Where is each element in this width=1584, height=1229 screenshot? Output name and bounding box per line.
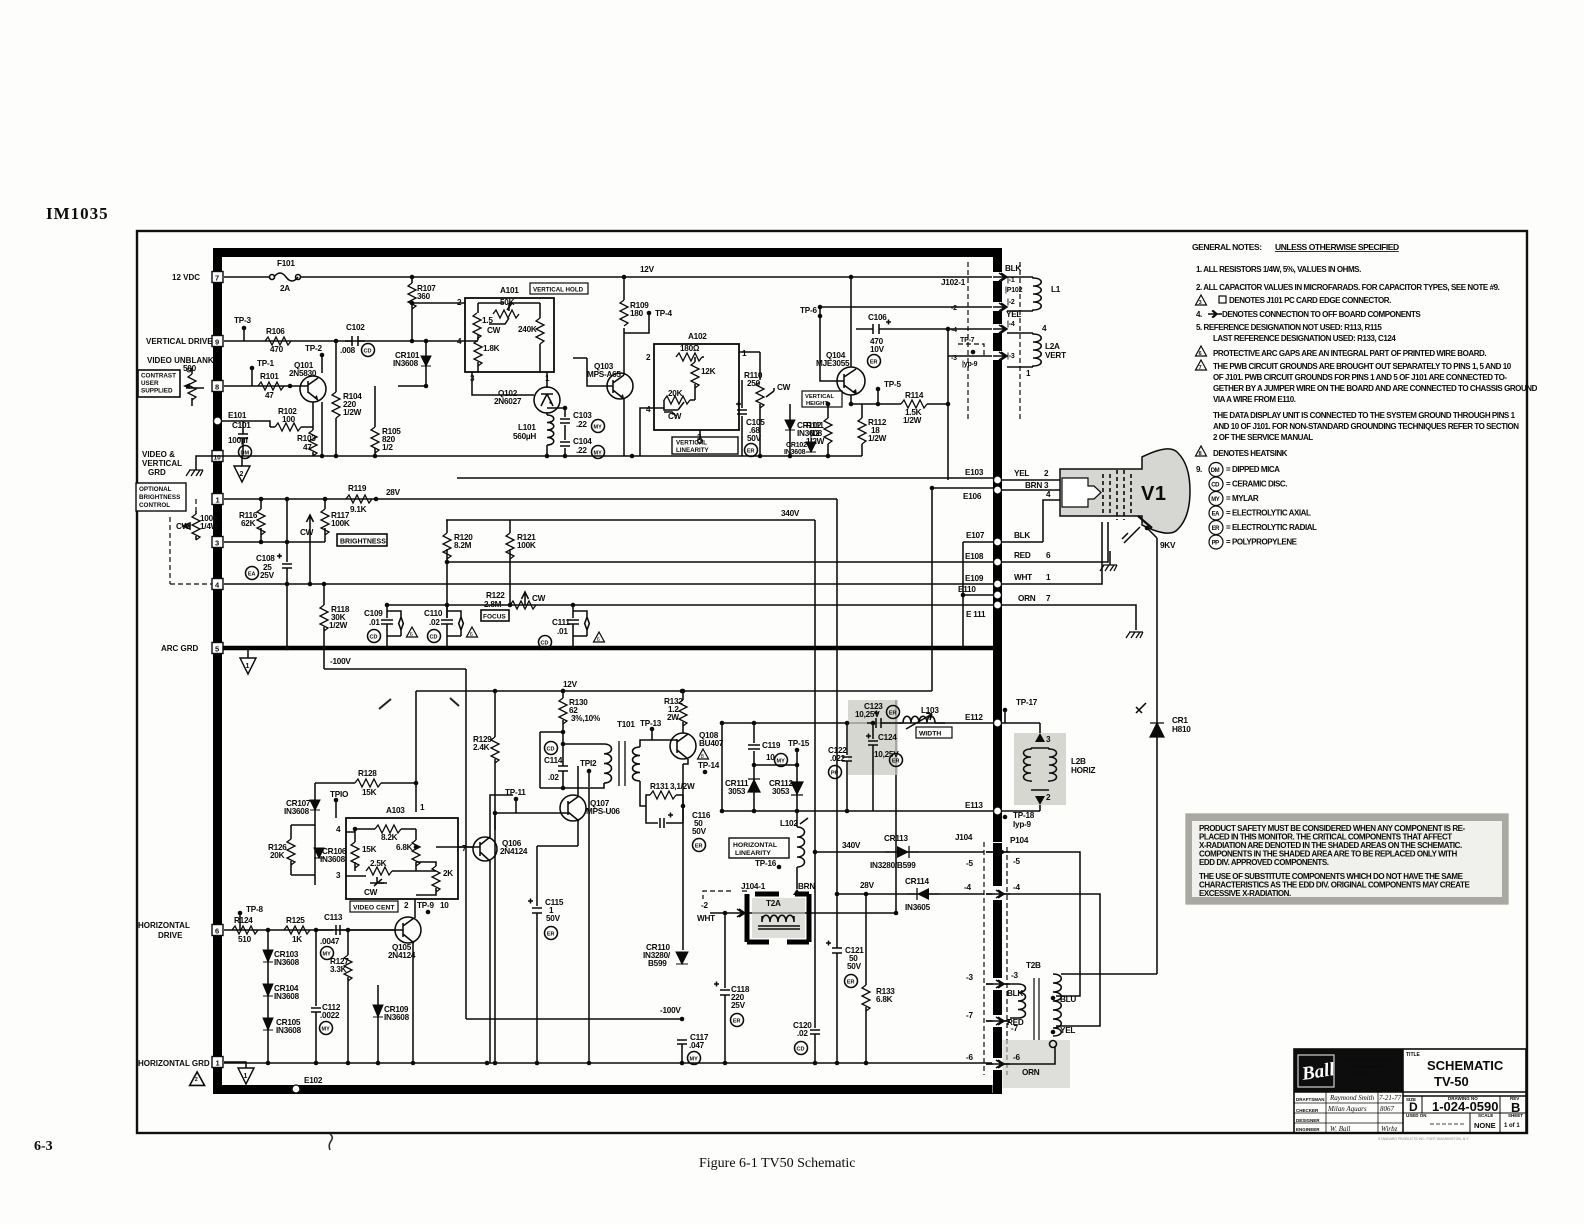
arrows through bus (top connector P102) (993, 273, 1007, 360)
resistor R126 (290, 825, 292, 839)
svg-text:4: 4 (1042, 324, 1047, 333)
test point TP-15 (795, 748, 800, 753)
svg-text:180Ω: 180Ω (680, 344, 700, 353)
pin 4 (212, 579, 223, 590)
svg-text:10: 10 (440, 901, 449, 910)
node E113 (994, 807, 1002, 815)
svg-text:E113: E113 (965, 801, 983, 810)
capacitor C111 (567, 605, 579, 648)
svg-text:IN3608: IN3608 (320, 855, 346, 864)
resistor 180 ohm inside A102 (676, 353, 702, 361)
wire 340V row (815, 851, 984, 853)
svg-text:IN3608: IN3608 (276, 1026, 302, 1035)
svg-text:UNLESS OTHERWISE SPECIFIED: UNLESS OTHERWISE SPECIFIED (1275, 242, 1399, 252)
wire E107 row (963, 541, 993, 543)
diode CR107 (314, 783, 316, 845)
svg-text:240K: 240K (518, 325, 537, 334)
heavy top bar (213, 248, 998, 257)
svg-text:ELECTRONIC DISPLAY: ELECTRONIC DISPLAY (1347, 1065, 1389, 1069)
capacitor C106 (856, 324, 993, 334)
arrow terminal 2 below pin 10 (241, 456, 243, 466)
diode CR110 (676, 952, 688, 964)
svg-text:= CERAMIC DISC.: = CERAMIC DISC. (1226, 480, 1287, 489)
label VERTICAL HEIGHT (802, 391, 842, 407)
svg-text:PP: PP (831, 771, 839, 777)
heavy right bus bar (993, 248, 1002, 1093)
wire clamp row (754, 764, 797, 766)
svg-text:3: 3 (215, 539, 219, 548)
heavy left card-edge bar (213, 248, 222, 1094)
test point TP10 (334, 798, 339, 803)
svg-text:E112: E112 (965, 713, 983, 722)
svg-text:1: 1 (216, 496, 220, 505)
resistor R104 (335, 341, 337, 456)
svg-text:TP-2: TP-2 (305, 344, 322, 353)
svg-text:C101: C101 (232, 421, 251, 430)
svg-text:4: 4 (646, 405, 651, 414)
svg-text:2.5K: 2.5K (370, 859, 387, 868)
svg-text:-2: -2 (951, 305, 957, 312)
svg-text:W. Ball: W. Ball (1330, 1125, 1350, 1133)
resistor R130 (562, 691, 564, 698)
wire Q104 collector (850, 277, 852, 404)
svg-text:R101: R101 (260, 372, 279, 381)
svg-text:3053: 3053 (728, 787, 746, 796)
svg-text:-4: -4 (964, 883, 971, 892)
svg-text:CR1: CR1 (1172, 716, 1188, 725)
diode CR113 (885, 846, 919, 858)
svg-text:1/2W: 1/2W (903, 416, 922, 425)
svg-text:TP-4: TP-4 (655, 309, 672, 318)
svg-text:|P102: |P102 (1005, 287, 1023, 294)
svg-text:8.2M: 8.2M (454, 541, 472, 550)
inductor L1 (1007, 277, 1041, 311)
test point TP-5 (876, 387, 881, 392)
test point TP-2 (320, 353, 325, 358)
transistor Q105 (395, 917, 421, 943)
svg-text:VERTICAL: VERTICAL (676, 440, 707, 447)
svg-text:MY: MY (594, 451, 603, 457)
svg-text:1: 1 (1026, 369, 1031, 378)
test point TP-3 (242, 326, 247, 331)
transistor Q103 (607, 373, 633, 399)
svg-text:TP-9: TP-9 (417, 901, 434, 910)
svg-text:MY: MY (777, 759, 786, 765)
pin 5 (212, 643, 223, 654)
svg-text:1: 1 (246, 663, 250, 670)
capacitor C108 electrolytic axial (277, 499, 292, 648)
test point TP-1 (250, 366, 255, 371)
svg-text:MJE3055: MJE3055 (816, 359, 850, 368)
svg-text:TPI2: TPI2 (580, 759, 597, 768)
inductor L2A VERT (1007, 333, 1041, 367)
svg-text:TP-14: TP-14 (698, 761, 720, 770)
label VIDEO CENT (350, 901, 398, 912)
svg-text:-2: -2 (701, 901, 708, 910)
resistor R103 (309, 430, 317, 456)
svg-text:= ELECTROLYTIC RADIAL: = ELECTROLYTIC RADIAL (1226, 523, 1317, 532)
svg-text:AND 10 OF J101. FOR NON-STAND: AND 10 OF J101. FOR NON-STANDARD GROUNDI… (1213, 422, 1519, 431)
svg-text:Iyp-9: Iyp-9 (1013, 820, 1032, 829)
svg-text:CHECKER: CHECKER (1296, 1108, 1319, 1113)
svg-text:2: 2 (1044, 469, 1049, 478)
svg-text:Wirbz: Wirbz (1381, 1125, 1398, 1133)
svg-text:BLK: BLK (1007, 989, 1023, 998)
svg-text:GENERAL NOTES:: GENERAL NOTES: (1192, 242, 1262, 252)
svg-text:10V: 10V (870, 345, 885, 354)
capacitor C109 (381, 605, 393, 648)
svg-text:DM: DM (1211, 468, 1220, 474)
svg-text:DRAFTSMAN: DRAFTSMAN (1296, 1097, 1325, 1102)
svg-text:C106: C106 (868, 313, 887, 322)
capacitor C110 (441, 605, 453, 648)
wire E106 row (932, 488, 993, 691)
svg-text:12K: 12K (701, 367, 716, 376)
svg-text:2. ALL CAPACITOR VALUES IN MI: 2. ALL CAPACITOR VALUES IN MICROFARADS. … (1196, 283, 1500, 292)
svg-text:ORN: ORN (1018, 594, 1036, 603)
svg-text:MY: MY (690, 1057, 699, 1063)
svg-text:ER: ER (747, 449, 755, 455)
svg-text:8: 8 (701, 754, 704, 760)
svg-text:ER: ER (847, 980, 855, 986)
heavy bottom bar (213, 1085, 1002, 1094)
svg-text:1 of 1: 1 of 1 (1504, 1123, 1520, 1129)
svg-text:WIDTH: WIDTH (919, 731, 941, 738)
svg-text:2N6027: 2N6027 (494, 397, 522, 406)
svg-text:BRIGHTNESS: BRIGHTNESS (139, 494, 180, 501)
svg-text:L2A: L2A (1045, 342, 1060, 351)
svg-text:CD: CD (541, 641, 549, 647)
capacitor C102 (345, 336, 365, 346)
svg-text:15K: 15K (362, 788, 377, 797)
svg-text:ER: ER (870, 360, 878, 366)
svg-text:R114: R114 (905, 391, 924, 400)
svg-text:IN3608: IN3608 (393, 359, 419, 368)
svg-text:MPS-U06: MPS-U06 (586, 807, 620, 816)
svg-text:1K: 1K (292, 935, 302, 944)
svg-text:15K: 15K (362, 845, 377, 854)
svg-text:6: 6 (1199, 351, 1202, 357)
pin 6 (212, 925, 223, 936)
wire Q103 emitter (573, 358, 624, 456)
svg-text:C115: C115 (545, 898, 564, 907)
svg-text:-100V: -100V (660, 1006, 681, 1015)
svg-text:T101: T101 (617, 720, 635, 729)
size / drawing no / rev row (1403, 1070, 1526, 1072)
svg-text:LINEARITY: LINEARITY (735, 850, 771, 857)
resistor R120 (446, 520, 448, 618)
svg-text:HORIZONTAL: HORIZONTAL (138, 921, 190, 930)
resistor 1.5 inside A101 (473, 313, 481, 339)
svg-text:100K: 100K (331, 519, 350, 528)
resistor R133 (865, 894, 867, 985)
svg-text:R122: R122 (486, 591, 505, 600)
svg-text:IM1035: IM1035 (46, 204, 109, 223)
wire E103 row (457, 477, 993, 479)
wire pin4 row E109 (224, 583, 993, 585)
svg-text:8: 8 (215, 383, 219, 392)
diode CR103b (806, 430, 816, 452)
svg-text:8.2K: 8.2K (381, 833, 398, 842)
svg-text:L1: L1 (1051, 285, 1061, 294)
svg-text:180: 180 (630, 309, 644, 318)
svg-text:J102-1: J102-1 (941, 278, 966, 287)
wire YEL to CRT (1002, 479, 1060, 481)
svg-text:-3: -3 (951, 355, 957, 362)
resistor 240K inside A101 (536, 318, 544, 344)
svg-text:-3: -3 (966, 973, 973, 982)
svg-text:IN3280/B599: IN3280/B599 (870, 861, 916, 870)
wire Q108 emitter column (683, 759, 688, 950)
svg-text:C102: C102 (346, 323, 365, 332)
svg-text:|yp-9: |yp-9 (962, 361, 978, 368)
svg-text:12V: 12V (640, 265, 655, 274)
svg-text:4: 4 (336, 825, 341, 834)
svg-text:CD: CD (430, 635, 438, 641)
resistor 1.8K inside A101 (474, 340, 482, 366)
wire A102 pin1 to R110 (739, 352, 760, 380)
svg-text:DESIGNER: DESIGNER (1296, 1118, 1320, 1123)
svg-text:3: 3 (1046, 735, 1051, 744)
svg-text:4: 4 (457, 337, 462, 346)
resistor R119 (346, 495, 372, 503)
svg-text:CONTROL: CONTROL (139, 502, 170, 509)
svg-text:E101: E101 (228, 411, 247, 420)
svg-text:6-3: 6-3 (34, 1139, 53, 1154)
wire 4 to CRT (1043, 500, 1060, 542)
svg-text:E102: E102 (304, 1076, 323, 1085)
svg-text:2N4124: 2N4124 (500, 847, 528, 856)
CRT V1 (1060, 449, 1190, 533)
svg-text:4: 4 (1046, 490, 1051, 499)
capacitor C112 (311, 930, 321, 1063)
svg-text:USER: USER (141, 380, 159, 387)
svg-text:Raymond Smith: Raymond Smith (1329, 1094, 1375, 1102)
svg-text:CW: CW (668, 412, 682, 421)
resistor R109 (623, 277, 625, 300)
wire 28V pin1 row (224, 499, 837, 894)
resistor 12K inside A102 (691, 362, 699, 388)
svg-text:E109: E109 (965, 574, 984, 583)
svg-text:ORN: ORN (1022, 1068, 1040, 1077)
Ball logo black box (1294, 1049, 1403, 1092)
svg-text:F101: F101 (277, 259, 295, 268)
svg-text:D: D (1409, 1100, 1418, 1114)
test point TP-4 (647, 311, 652, 316)
svg-text:6: 6 (410, 632, 413, 638)
svg-text:EA: EA (1212, 512, 1221, 518)
node E112 (994, 719, 1002, 727)
wire 12V rail bottom (416, 690, 932, 692)
connector J104-1 (703, 891, 747, 899)
wire ground row bottom (224, 1062, 993, 1064)
pin 1 (212, 494, 223, 505)
wire BLK E107 (1002, 541, 1043, 543)
svg-text:5. REFERENCE DESIGNATION NOT: 5. REFERENCE DESIGNATION NOT USED: R113,… (1196, 323, 1382, 332)
svg-text:.01: .01 (369, 618, 380, 627)
resistors R111 R112 (828, 404, 862, 456)
node E106 (994, 486, 1002, 494)
svg-text:3: 3 (336, 871, 341, 880)
svg-text:2: 2 (195, 1077, 198, 1083)
svg-text:5: 5 (215, 645, 219, 654)
svg-text:.02: .02 (797, 1029, 808, 1038)
wire E107 drop to arc rail (962, 542, 964, 649)
svg-text:1: 1 (1046, 573, 1051, 582)
svg-text:ER: ER (889, 711, 897, 717)
svg-text:WHT: WHT (1014, 573, 1032, 582)
svg-text:H810: H810 (1172, 725, 1191, 734)
svg-text:2: 2 (404, 901, 409, 910)
diode CR109 (377, 985, 379, 1063)
resistor R121 (509, 520, 511, 605)
svg-text:1. ALL RESISTORS 1/4W, 5%, VA: 1. ALL RESISTORS 1/4W, 5%, VALUES IN OHM… (1196, 265, 1361, 274)
svg-text:9: 9 (215, 338, 219, 347)
svg-text:A101: A101 (500, 286, 519, 295)
svg-text:R106: R106 (266, 327, 285, 336)
svg-text:560µH: 560µH (513, 432, 536, 441)
svg-text:= ELECTROLYTIC AXIAL: = ELECTROLYTIC AXIAL (1226, 509, 1311, 518)
resistor R114 (851, 403, 901, 405)
resistor R127 (347, 930, 349, 955)
svg-text:1-024-0590: 1-024-0590 (1432, 1099, 1499, 1114)
svg-text:9.1K: 9.1K (350, 505, 367, 514)
x-ray shade T2B (1002, 1040, 1070, 1088)
transistor Q104 (837, 367, 865, 395)
svg-text:2.8M: 2.8M (484, 600, 502, 609)
svg-text:.22: .22 (576, 420, 587, 429)
capacitor C101 (238, 430, 248, 456)
resistor R101 (258, 382, 284, 390)
svg-text:EXCESSIVE X-RADIATION.: EXCESSIVE X-RADIATION. (1199, 889, 1291, 898)
chassis ground below pin 10 (196, 456, 224, 470)
svg-text:R124: R124 (234, 916, 253, 925)
svg-text:6.8K: 6.8K (396, 843, 413, 852)
fuse F101 (270, 275, 275, 280)
wire E101 to C101/R102 (222, 421, 275, 430)
svg-text:C113: C113 (324, 913, 343, 922)
capacitor C115 electrolytic (528, 846, 542, 1063)
capacitor C121 electrolytic (826, 941, 842, 954)
down arrow terminal below pin5 (224, 648, 248, 658)
svg-text:8: 8 (1199, 451, 1202, 457)
wire BRN to CRT (1002, 489, 1060, 491)
ground 9KV arc (1110, 527, 1140, 565)
wire 12V rail (224, 276, 993, 278)
diode CR101 (398, 341, 426, 386)
svg-text:12 VDC: 12 VDC (172, 273, 200, 282)
resistor R124 (232, 926, 258, 934)
svg-text:6: 6 (1046, 551, 1051, 560)
optional brightness pot 100K 1/4W dashed wiring (170, 499, 212, 584)
svg-text:3%,10%: 3%,10% (571, 714, 601, 723)
svg-text:A102: A102 (688, 332, 707, 341)
svg-text:C109: C109 (364, 609, 383, 618)
svg-text:DIVISION: DIVISION (1354, 1072, 1371, 1076)
svg-text:EDD DIV. APPROVED COMPONENTS.: EDD DIV. APPROVED COMPONENTS. (1199, 858, 1329, 867)
svg-text:2.4K: 2.4K (473, 743, 490, 752)
test point TP-7b (971, 350, 976, 355)
svg-text:50V: 50V (546, 914, 561, 923)
svg-text:100µf: 100µf (228, 436, 248, 445)
svg-text:1/2W: 1/2W (329, 621, 348, 630)
svg-text:C110: C110 (424, 609, 443, 618)
resistor R116 (260, 499, 262, 542)
svg-text:IN3608: IN3608 (784, 449, 806, 456)
svg-text:TP-7: TP-7 (960, 337, 975, 344)
svg-text:VERTICAL HOLD: VERTICAL HOLD (533, 287, 584, 294)
transistor Q106 (473, 837, 497, 861)
svg-text:E107: E107 (966, 531, 985, 540)
svg-text:R125: R125 (286, 916, 305, 925)
svg-text:VERT: VERT (1045, 351, 1066, 360)
svg-text:|-1: |-1 (1007, 277, 1015, 284)
svg-text:T2A: T2A (766, 899, 781, 908)
svg-text:50V: 50V (692, 827, 707, 836)
svg-text:CR102: CR102 (786, 442, 807, 449)
svg-text:7: 7 (1046, 594, 1051, 603)
svg-text:TP-5: TP-5 (884, 380, 901, 389)
svg-text:.008: .008 (340, 346, 356, 355)
svg-text:P104: P104 (1010, 836, 1029, 845)
connector J102 dashed (967, 262, 969, 420)
svg-text:E106: E106 (963, 492, 982, 501)
svg-text:-6: -6 (1013, 1053, 1020, 1062)
optional brightness control box (136, 483, 186, 511)
arrows P104 rows (986, 848, 1010, 1068)
svg-text:28V: 28V (860, 881, 875, 890)
resistor R125 (284, 926, 310, 934)
svg-text:.0047: .0047 (320, 937, 340, 946)
svg-text:PP: PP (1212, 541, 1220, 547)
svg-text:2: 2 (646, 353, 651, 362)
svg-text:2N5830: 2N5830 (289, 369, 317, 378)
connector J104/P104 dashed (983, 842, 985, 1075)
test point TP-6 (818, 314, 823, 319)
resistor R105 (374, 386, 376, 456)
heavy ARC GRD rail (222, 646, 993, 651)
svg-text:L101: L101 (518, 423, 536, 432)
svg-text:6.8K: 6.8K (876, 995, 893, 1004)
svg-text:.02: .02 (548, 773, 559, 782)
svg-text:62K: 62K (241, 519, 256, 528)
svg-text:|-2: |-2 (1007, 299, 1015, 306)
transistor Q107 (560, 795, 586, 821)
svg-text:-5: -5 (1013, 857, 1020, 866)
pot R117 100K (324, 499, 326, 542)
svg-text:7-21-77: 7-21-77 (1379, 1094, 1402, 1102)
capacitor C104 (560, 434, 570, 456)
svg-text:-3: -3 (1011, 971, 1018, 980)
svg-text:1/4W: 1/4W (200, 522, 219, 531)
svg-text:L102: L102 (780, 819, 798, 828)
svg-text:SCHEMATIC: SCHEMATIC (1427, 1058, 1504, 1073)
svg-text:|-4: |-4 (1007, 321, 1015, 328)
svg-text:CR113: CR113 (884, 834, 908, 843)
capacitor C122 (842, 723, 852, 811)
svg-text:2: 2 (1046, 793, 1051, 802)
svg-text:C104: C104 (573, 437, 592, 446)
node -100V (680, 1017, 685, 1022)
wire E108 row (447, 561, 993, 563)
svg-text:TP-3: TP-3 (234, 316, 251, 325)
inductor L101 (547, 415, 554, 456)
svg-text:MY: MY (1211, 497, 1220, 503)
test point TP-13 (650, 727, 655, 732)
svg-text:3053: 3053 (772, 787, 790, 796)
svg-text:VERTICAL DRIVE: VERTICAL DRIVE (146, 337, 213, 346)
wire 340V row (446, 520, 815, 852)
